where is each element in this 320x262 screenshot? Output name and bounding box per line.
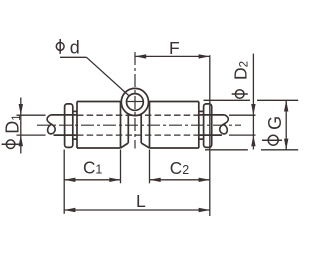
extension right ring outer [209,105,211,216]
arrow phiD1 top [19,104,23,115]
arrow phiG bottom [284,139,288,150]
dim phiD2 line [252,54,254,150]
arrows [19,54,289,212]
center boss neck [121,114,150,148]
boss crosshair [126,101,144,103]
label phi-d phi symbol [56,39,64,54]
svg-text:D1: D1 [3,114,23,133]
dim phiD2 extension lines [229,115,256,135]
svg-text:F: F [169,38,180,58]
arrow C2 right [199,178,210,182]
arrow phiG top [284,100,288,111]
svg-text:d: d [70,38,80,58]
vertical centerline [134,52,136,149]
boss circle inner [126,94,143,111]
boss circle outer [121,88,148,115]
dim phiG extension bottom [205,149,298,151]
right tube break [220,115,228,134]
dim phiD1 line [20,98,22,154]
arrow L right [199,208,210,212]
dim C2 line [150,179,210,181]
right tube [199,115,225,135]
right collar [199,111,204,139]
svg-text:C1: C1 [83,157,102,177]
body right block [149,102,199,149]
dim phiD1 extension lines [17,115,46,135]
svg-text:D2: D2 [230,61,250,80]
dim phiG extension top [204,99,299,101]
svg-text:C2: C2 [170,158,189,178]
svg-text:L: L [136,191,146,211]
svg-text:G: G [265,116,285,130]
bore hidden line bottom [77,134,199,136]
dim F line [135,55,210,57]
extension body right-block inner [149,150,151,184]
horizontal centerline [37,124,241,126]
arrow phiD1 bottom [19,135,23,146]
arrow C2 left [150,178,161,182]
arrow F right [199,54,210,58]
arrow C1 left [64,178,75,182]
arrow phiD2 bottom [251,135,255,146]
body left block [77,102,121,149]
dim F extension right [209,55,211,103]
label phiD2 phi symbol [232,90,248,99]
right release ring [204,104,212,147]
left tube [51,115,77,135]
dim phiG line [285,100,287,150]
left release ring [65,104,73,147]
bore hidden line top [77,114,199,116]
dim C1 line [64,179,120,181]
label phiD1 phi symbol [2,140,20,149]
arrow F left [135,54,146,58]
left tube break [47,115,55,134]
left collar [73,111,77,139]
label phiG phi symbol [262,135,282,145]
arrow C1 right [109,178,120,182]
dim phi-d leader [60,57,129,96]
extension body left-block inner [120,150,122,184]
dim L line [64,209,210,211]
arrow phiD2 top [251,104,255,115]
arrow L left [64,208,75,212]
extension left ring outer [63,150,65,214]
